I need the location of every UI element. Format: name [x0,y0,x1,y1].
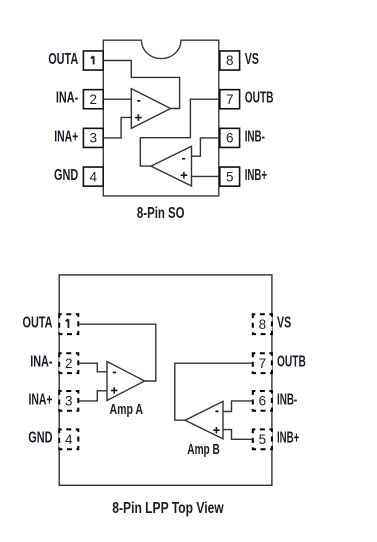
pin 1 number (LPP) [66,319,69,328]
pin 7 dashed box (LPP) [253,353,272,373]
pin 3 box (SO) [83,128,103,147]
pin 2 box (SO) [83,90,103,109]
svg-text:8: 8 [259,317,267,332]
svg-text:INB+: INB+ [245,167,267,184]
pin 3 dashed box (LPP) [59,391,78,411]
svg-text:Amp B: Amp B [187,442,220,458]
svg-text:6: 6 [259,394,267,409]
wire pin3 INA+ to op-amp A non-inverting input (SO) [103,117,131,137]
pin 5 box (SO) [220,167,240,186]
wire pin6 INB- to Amp B inverting input (LPP) [223,401,253,412]
pin 2 dashed box (LPP) [59,353,78,373]
wire pin5 INB+ to Amp B non-inverting input (LPP) [223,430,253,440]
svg-text:2: 2 [65,356,73,371]
wire pin2 INA- to Amp A inverting input (LPP) [78,363,107,372]
op-amp B triangle (SO) [151,146,192,186]
svg-text:Amp A: Amp A [110,402,144,418]
svg-text:3: 3 [65,394,73,409]
wire pin6 INB- to op-amp B inverting input (SO) [192,138,219,156]
op-amp Amp B triangle (LPP) [185,401,223,439]
op-amp Amp A non-inverting input plus sign (LPP) [111,387,117,393]
svg-text:5: 5 [259,432,267,447]
IC body U1 8-Pin SO package outline with index notch [103,40,219,196]
svg-text:8: 8 [226,53,234,68]
svg-text:3: 3 [90,131,98,146]
wire pin7 OUTB to Amp B output (LPP) [175,363,253,420]
pin 6 box (SO) [220,128,240,147]
svg-text:OUTB: OUTB [277,354,306,371]
op-amp B inverting input minus sign (SO) [182,158,185,160]
svg-text:INA+: INA+ [54,128,78,145]
wire pin7 OUTB to op-amp B output (SO) [140,99,219,166]
svg-text:INB-: INB- [277,391,297,408]
svg-text:7: 7 [226,92,234,107]
svg-text:INB+: INB+ [277,430,299,447]
pin 5 dashed box (LPP) [253,429,272,449]
svg-text:6: 6 [226,131,234,146]
svg-text:8-Pin SO: 8-Pin SO [137,205,185,222]
pin 7 box (SO) [220,90,240,109]
pin 8 dashed box (LPP) [253,314,272,334]
svg-text:GND: GND [28,430,52,447]
op-amp A triangle (SO) [131,89,170,129]
svg-text:8-Pin LPP Top View: 8-Pin LPP Top View [112,500,223,517]
svg-text:4: 4 [65,432,73,447]
svg-text:OUTA: OUTA [23,315,53,332]
op-amp A non-inverting input plus sign (SO) [135,114,142,121]
wire pin2 INA- to op-amp A inverting input (SO) [103,98,131,100]
op-amp Amp A triangle (LPP) [107,362,145,401]
pin 4 dashed box (LPP) [59,429,78,449]
svg-text:INA-: INA- [30,354,52,371]
svg-text:5: 5 [226,169,234,184]
svg-text:GND: GND [54,167,78,184]
op-amp Amp B inverting input minus sign (LPP) [215,410,218,412]
svg-text:VS: VS [245,51,259,68]
svg-text:INA+: INA+ [29,391,53,408]
op-amp Amp B non-inverting input plus sign (LPP) [213,427,219,433]
pin 8 box (SO) [220,51,240,70]
svg-text:4: 4 [90,169,98,184]
pin 4 box (SO) [83,167,103,186]
pin 6 dashed box (LPP) [253,391,272,411]
wire pin5 INB+ to op-amp B non-inverting input (SO) [192,175,219,177]
op-amp Amp A inverting input minus sign (LPP) [113,371,116,373]
op-amp A inverting input minus sign (SO) [137,100,140,102]
pin 1 dashed box (LPP) [59,314,78,334]
pin 1 number [91,56,94,64]
svg-text:OUTA: OUTA [48,51,78,68]
svg-text:INA-: INA- [56,90,78,107]
wire pin3 INA+ to Amp A non-inverting input (LPP) [78,391,107,401]
pin 1 box (SO) [83,51,103,70]
svg-text:7: 7 [259,356,267,371]
IC body U1 8-Pin LPP package outline [59,275,272,485]
svg-text:OUTB: OUTB [245,90,274,107]
op-amp B non-inverting input plus sign (SO) [181,172,188,179]
svg-text:VS: VS [277,315,291,332]
svg-text:2: 2 [90,92,98,107]
wire pin1 OUTA to Amp A output (LPP) [78,324,156,381]
svg-text:INB-: INB- [245,128,265,145]
wire pin1 OUTA to op-amp A output (SO) [103,61,179,109]
